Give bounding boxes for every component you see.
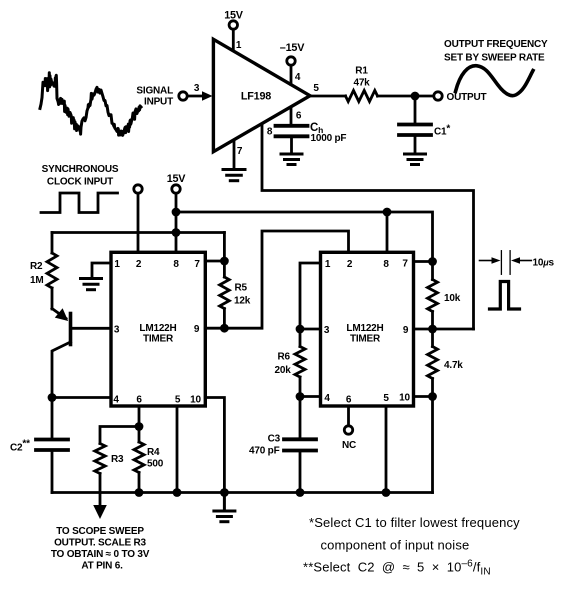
junction dot timer2 pin 7 node (428, 257, 437, 266)
capacitor C3 470 pF (284, 397, 316, 493)
dimension right arrow (511, 257, 531, 264)
wire timer1 pin 10 to ground rail (205, 398, 224, 493)
node: SIGNAL INPUT terminal, U1 pin 3 (179, 91, 213, 101)
svg-text:7: 7 (402, 259, 408, 270)
svg-text:1M: 1M (30, 275, 44, 286)
svg-text:3: 3 (114, 325, 120, 336)
wire timer1 pin 6 down (138, 406, 141, 427)
op-amp U1 LF198 triangle (213, 39, 310, 151)
svg-text:1: 1 (114, 259, 120, 270)
junction dot output node (411, 92, 420, 101)
resistor R4 500 (134, 427, 144, 493)
svg-text:OUTPUT. SCALE R3: OUTPUT. SCALE R3 (54, 538, 146, 549)
svg-text:NC: NC (342, 440, 356, 451)
wire clock to timer1 pin 2 (137, 194, 140, 253)
junction dot collector / timer1 pin 4 / C2 (48, 393, 57, 402)
wire timer2 pin 3 (300, 328, 321, 331)
wire timer2 pin 10 to 4.7k column (414, 395, 433, 398)
junction dot timer1 pin 7 node (220, 257, 229, 266)
C3 top plate (284, 437, 316, 441)
junction dot R5 bottom at pin 9 row (220, 324, 229, 333)
svg-text:20k: 20k (275, 365, 292, 376)
resistor 10k (428, 262, 438, 330)
svg-text:C3: C3 (268, 434, 281, 445)
wire C3 to rail (299, 451, 302, 493)
svg-text:9: 9 (194, 324, 200, 335)
C1 bottom plate (399, 133, 431, 137)
dimension marker 10us: left tick (500, 251, 502, 275)
wire U1 pin 7 to ground (233, 141, 236, 169)
svg-text:TO OBTAIN ≈ 0 TO 3V: TO OBTAIN ≈ 0 TO 3V (51, 549, 150, 560)
ground below Ch (281, 154, 302, 165)
wire timer2 pin 5 to rail (385, 406, 388, 493)
junction dot ground node at rail (220, 488, 229, 497)
svg-text:5: 5 (313, 83, 319, 94)
ground rail (52, 491, 433, 494)
wire pin6 node to R3 (100, 427, 139, 444)
svg-text:R6: R6 (278, 352, 291, 363)
svg-text:4.7k: 4.7k (444, 360, 463, 371)
wire U1 pin 6 to Ch (290, 109, 293, 125)
svg-text:10: 10 (190, 395, 201, 406)
wire R1 to output terminal (378, 95, 434, 98)
terminal circle 15V timers (172, 185, 180, 193)
terminal circle signal input (179, 92, 187, 100)
timer1 U2 LM122H box (111, 252, 205, 406)
C1 top plate (399, 123, 431, 127)
svg-text:TO SCOPE SWEEP: TO SCOPE SWEEP (56, 526, 144, 537)
capacitor C2 (36, 398, 68, 493)
svg-text:SET BY SWEEP RATE: SET BY SWEEP RATE (444, 53, 545, 64)
junction dot pin 6 node (135, 422, 144, 431)
svg-text:10: 10 (399, 393, 410, 404)
Q1 base wire to timer1 pin 3 (71, 327, 112, 330)
svg-text:component of input noise: component of input noise (321, 538, 470, 553)
wire timer2 pin 6 to NC (347, 406, 350, 426)
svg-text:5: 5 (383, 393, 389, 404)
ground at timer1 pin 1 (81, 279, 102, 290)
wire timer1 pin 9 to timer2 pin 2 (205, 231, 348, 328)
svg-text:47k: 47k (353, 78, 370, 89)
svg-text:OUTPUT FREQUENCY: OUTPUT FREQUENCY (444, 39, 548, 50)
svg-text:6: 6 (296, 111, 302, 122)
wire 15V bus to timer2 pins 8 and 7 (176, 212, 433, 262)
dimension marker right tick (509, 251, 511, 275)
Q1 emitter wire (52, 309, 66, 319)
svg-text:12k: 12k (234, 296, 251, 307)
junction dot timer2 pin 10 node (428, 392, 437, 401)
svg-text:CLOCK INPUT: CLOCK INPUT (47, 177, 113, 188)
wire to timer1 pin 4 (52, 396, 111, 399)
svg-text:OUTPUT: OUTPUT (447, 92, 487, 103)
node: 15V terminal above timer1 (172, 185, 180, 253)
dimension left arrow (480, 257, 501, 264)
wire timer2 pin 1 to left column (300, 263, 321, 329)
wire bus drop to timer1 pin 7 node (223, 233, 226, 262)
arrowhead to scope sweep output (93, 505, 107, 519)
wire timer2 pin 4 (300, 395, 321, 398)
junction dot timer2 pin 9 node (428, 325, 437, 334)
resistor R2 1M (47, 233, 57, 310)
pulse waveform (490, 282, 520, 310)
wire input (188, 95, 206, 98)
capacitor Ch 1000 pF (276, 126, 308, 153)
wire timer1 pin 1 to ground (92, 263, 111, 277)
svg-text:2: 2 (136, 259, 142, 270)
svg-text:4: 4 (324, 393, 330, 404)
resistor R3 (95, 444, 105, 506)
node: 15V terminal of U1 pin 1 (229, 21, 237, 51)
svg-text:R1: R1 (355, 66, 368, 77)
junction dot C3 at rail (296, 488, 305, 497)
resistor 4.7k (428, 329, 438, 397)
node: synchronous clock input terminal (134, 185, 142, 253)
wire timer2 pin 7 (414, 260, 433, 263)
svg-text:4: 4 (295, 72, 301, 83)
resistor R1 47k (346, 91, 378, 102)
svg-text:INPUT: INPUT (144, 97, 173, 108)
svg-text:3: 3 (194, 83, 200, 94)
wire U1 pin 8 down right and to timer2 pin 9 node (262, 124, 474, 329)
svg-text:10μs: 10μs (533, 258, 555, 269)
svg-text:15V: 15V (224, 10, 244, 22)
svg-text:6: 6 (346, 395, 352, 406)
svg-text:LM122H: LM122H (139, 323, 176, 334)
svg-text:8: 8 (173, 259, 179, 270)
svg-text:7: 7 (237, 146, 243, 157)
junction dot timer2 pin 5 at rail (382, 488, 391, 497)
Q1 collector wire (52, 342, 71, 398)
wire C1 to ground (414, 135, 417, 153)
wire C2 to ground rail (51, 450, 54, 493)
wire U1 pin 5 output to R1 (310, 95, 346, 98)
junction dot R4 at rail (135, 488, 144, 497)
svg-text:SIGNAL: SIGNAL (136, 86, 173, 97)
svg-text:R3: R3 (111, 454, 124, 465)
wire timer2 pin 9 row (414, 328, 474, 331)
svg-text:4: 4 (113, 395, 119, 406)
wire pin1 (232, 30, 235, 51)
wire node to C2 (51, 398, 54, 439)
svg-text:TIMER: TIMER (143, 334, 174, 345)
terminal circle NC (344, 426, 352, 434)
svg-text:1000 pF: 1000 pF (311, 133, 347, 144)
ground below rail (214, 493, 235, 522)
Ch bottom plate (276, 134, 308, 138)
junction dot 15V bus at pin8 line (172, 208, 181, 217)
terminal circle OUTPUT (434, 92, 442, 100)
svg-text:LM122H: LM122H (346, 323, 383, 334)
junction dot timer2 pin 3 node (296, 325, 305, 334)
wire drop to timer2 pin 8 (386, 212, 389, 252)
transistor Q1 (52, 308, 111, 397)
input noise waveform (40, 73, 141, 136)
timer2 U3 LM122H box (321, 252, 414, 406)
terminal circle -15V (287, 57, 295, 65)
svg-text:470 pF: 470 pF (249, 446, 280, 457)
svg-text:3: 3 (324, 325, 330, 336)
ground below pin 7 (223, 170, 245, 181)
wire output node to C1 (414, 96, 417, 123)
wire Ch to ground (290, 136, 293, 152)
svg-text:6: 6 (136, 395, 142, 406)
arrowhead into pin 3 (202, 91, 213, 101)
capacitor C1 (399, 96, 431, 153)
svg-text:R5: R5 (235, 283, 248, 294)
svg-text:TIMER: TIMER (350, 334, 381, 345)
ground below C1 (405, 154, 426, 165)
wire pin4 (290, 66, 293, 85)
svg-text:10k: 10k (444, 293, 461, 304)
C2 bottom plate (36, 448, 68, 452)
clock square wave symbol (41, 193, 118, 213)
svg-text:8: 8 (383, 259, 389, 270)
node: -15V terminal of U1 pin 4 (287, 57, 295, 85)
svg-text:SYNCHRONOUS: SYNCHRONOUS (42, 164, 119, 175)
terminal circle 15V (229, 21, 237, 29)
junction dot pin 5 at rail (173, 488, 182, 497)
junction dot timer2 pin 8 drop (383, 208, 392, 217)
svg-text:1: 1 (325, 259, 331, 270)
Q1 base bar (69, 314, 73, 345)
svg-text:–15V: –15V (280, 42, 305, 54)
svg-text:2: 2 (347, 259, 353, 270)
wire 15V bus to R2 and timer1 pin 7 (52, 231, 224, 234)
Ch top plate (276, 124, 308, 128)
wire timer1 pin 5 to rail (176, 406, 179, 493)
C2 top plate (36, 438, 68, 442)
resistor R6 20k (295, 329, 305, 397)
svg-text:R4: R4 (147, 447, 160, 458)
junction dot timer2 pin 4 node (296, 392, 305, 401)
svg-text:500: 500 (147, 459, 164, 470)
svg-text:15V: 15V (167, 173, 187, 185)
wire 4.7k bottom to rail corner (431, 397, 434, 493)
C3 bottom plate (284, 449, 316, 453)
svg-text:9: 9 (403, 325, 409, 336)
svg-text:*Select C1 to filter lowest fr: *Select C1 to filter lowest frequency (309, 515, 520, 530)
svg-text:7: 7 (194, 259, 200, 270)
svg-text:LF198: LF198 (241, 91, 271, 103)
terminal circle clock (134, 185, 142, 193)
Q1 emitter arrowhead (55, 308, 68, 321)
wire timer1 pin 7 to R5 node (205, 260, 224, 263)
wire pin4 node to C3 (299, 397, 302, 439)
resistor R5 12k (220, 261, 230, 328)
junction dot 15V at lower bus (172, 228, 181, 237)
wire 15V to timer1 pin 8 (175, 194, 178, 253)
svg-text:R2: R2 (30, 261, 43, 272)
output sine wave (456, 66, 534, 96)
svg-text:5: 5 (175, 395, 181, 406)
svg-text:8: 8 (267, 127, 273, 138)
svg-text:1: 1 (236, 40, 242, 51)
svg-text:AT PIN 6.: AT PIN 6. (81, 561, 123, 572)
